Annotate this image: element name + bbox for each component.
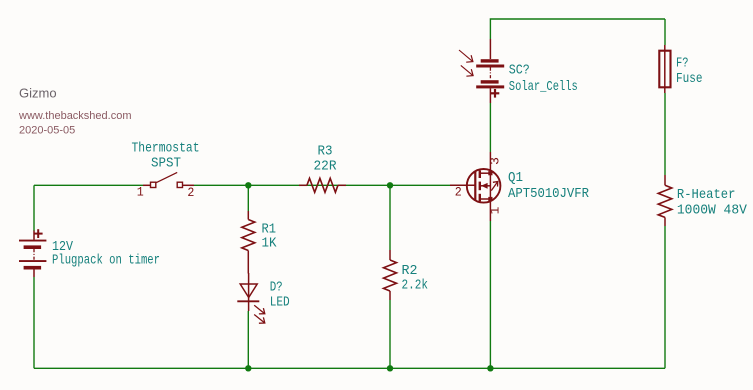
junction node at switch-R1 (248,185): [245, 182, 251, 188]
svg-text:2.2k: 2.2k: [402, 278, 429, 294]
svg-text:SPST: SPST: [151, 156, 181, 172]
Q1 drain pin: [489, 152, 491, 171]
resistor R1: [242, 211, 255, 274]
svg-text:SC?: SC?: [509, 63, 530, 79]
switch SW1 Thermostat SPST: [143, 172, 194, 187]
svg-text:www.thebackshed.com: www.thebackshed.com: [18, 110, 132, 122]
svg-text:Plugpack on timer: Plugpack on timer: [52, 253, 160, 269]
svg-text:1K: 1K: [262, 236, 278, 252]
transistor Q1 APT5010JVFR (N-MOSFET): [450, 152, 500, 221]
junction node bottom R2 column: [387, 365, 393, 371]
solar plus sign: [491, 92, 500, 94]
Q1 source pin: [489, 200, 491, 221]
svg-text:22R: 22R: [314, 159, 338, 175]
LED D?: [237, 273, 264, 323]
junction node bottom LED column: [245, 365, 251, 371]
wire bottom rail: [34, 367, 665, 369]
svg-text:2: 2: [455, 185, 462, 200]
wire main horizontal middle (switch to Q1 gate): [194, 184, 450, 186]
fuse F?: [659, 45, 670, 93]
svg-text:3: 3: [488, 157, 503, 165]
resistor R-Heater: [658, 175, 672, 226]
svg-text:1: 1: [488, 206, 503, 214]
Q1 gate bar: [474, 171, 476, 200]
svg-text:Thermostat: Thermostat: [132, 141, 200, 157]
Q1 body circle: [467, 169, 501, 203]
svg-text:Fuse: Fuse: [676, 71, 703, 87]
svg-text:Gizmo: Gizmo: [19, 86, 57, 101]
Q1 source internal: [480, 198, 491, 200]
svg-text:F?: F?: [676, 56, 689, 72]
svg-text:Q1: Q1: [508, 170, 523, 186]
svg-text:1: 1: [137, 184, 144, 199]
svg-text:2020-05-05: 2020-05-05: [19, 125, 75, 137]
svg-text:R-Heater: R-Heater: [677, 187, 736, 203]
resistor R2: [384, 250, 397, 300]
wire left vertical (battery branch): [33, 185, 35, 231]
battery BT1 12V: [19, 229, 46, 277]
svg-text:1000W 48V: 1000W 48V: [677, 203, 748, 219]
wire R2 column: [389, 185, 391, 250]
Q1 substrate arrow: [481, 185, 490, 187]
svg-text:R3: R3: [318, 144, 333, 160]
Q1 diagonal arrow: [491, 182, 497, 191]
wire Q1 source column: [489, 221, 491, 368]
solar light arrow 1: [459, 50, 473, 61]
wire Q1 drain to solar cells: [489, 103, 491, 152]
Q1 channel segments: [479, 170, 481, 178]
svg-text:2: 2: [187, 185, 194, 200]
solar cells SC?: [459, 39, 504, 103]
Q1 drain internal: [480, 172, 491, 174]
solar light arrow 2: [461, 65, 473, 75]
LED light arrow 1: [254, 305, 264, 313]
wire solar cells to top rail: [490, 19, 665, 39]
svg-text:APT5010JVFR: APT5010JVFR: [508, 186, 590, 202]
svg-text:LED: LED: [270, 295, 290, 311]
svg-text:Solar_Cells: Solar_Cells: [509, 79, 578, 95]
wire main horizontal left (battery to switch): [34, 184, 143, 186]
wire LED column: [247, 185, 249, 211]
Q1 gate pin: [450, 184, 475, 186]
junction node at R3-R2 (390,185): [387, 182, 393, 188]
resistor R3: [299, 178, 346, 192]
svg-text:D?: D?: [270, 280, 283, 296]
LED light arrow 2: [254, 315, 264, 323]
wire fuse to heater: [664, 93, 666, 175]
wire top right vertical (to fuse): [664, 19, 666, 45]
junction node bottom Q1 column: [487, 365, 493, 371]
wire heater to bottom rail: [664, 226, 666, 368]
